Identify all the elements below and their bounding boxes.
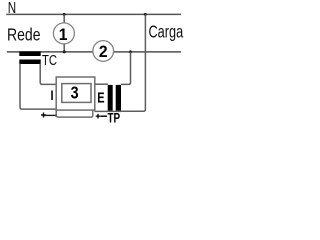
transformer TC bar 1 (core bar on phase line) — [19, 51, 40, 56]
wire right drop from N line down to TP bottom lead — [121, 14, 146, 111]
wire drop from phase line down to TP top lead — [121, 52, 131, 85]
wire phase line right segment (to Carga) — [113, 51, 181, 53]
wire under TP bars from box corner to right drop — [94, 110, 121, 112]
wire N line (neutral, top horizontal) — [6, 13, 181, 15]
svg-text:N: N — [8, 0, 16, 16]
wire TC secondary left lead down then right to meter box — [20, 64, 56, 109]
polarity mark + (left, current circuit) — [41, 113, 46, 118]
transformer TC bar 2 (secondary bar) — [19, 60, 40, 65]
svg-text:Rede: Rede — [7, 25, 41, 45]
svg-text:TC: TC — [42, 51, 57, 68]
wire dash from right plus to TP — [101, 115, 108, 117]
svg-text:Carga: Carga — [149, 23, 184, 42]
wire stub from N line down to meter 1 — [63, 14, 65, 23]
wire meter box left edge overshoot to plus lead — [55, 110, 57, 117]
wire phase line left segment (Rede feeder) — [7, 51, 93, 53]
wire TC secondary right lead down then right to meter box — [40, 64, 56, 85]
svg-text:E: E — [97, 89, 105, 106]
wire from meter box right edge to TP bar 1 top lead — [95, 83, 108, 85]
meter 3 outer box — [56, 77, 95, 110]
transformer TP bar 2 — [116, 85, 121, 111]
svg-text:TP: TP — [108, 110, 121, 126]
svg-text:1: 1 — [59, 26, 68, 44]
junction dot on N line at right drop — [144, 13, 147, 16]
junction dot on phase line right of meter 2 — [129, 50, 132, 53]
svg-text:I: I — [50, 88, 53, 103]
transformer TP bar 1 — [108, 85, 113, 111]
junction dot on phase line below meter 1 — [63, 50, 66, 53]
junction dot on N line above meter 1 — [63, 13, 66, 16]
svg-text:3: 3 — [71, 84, 79, 103]
meter 3 inner box — [62, 84, 91, 103]
meter 2 circle — [93, 41, 114, 62]
wire from left plus to box bottom left — [44, 114, 57, 116]
polarity mark + (right, voltage circuit) — [96, 114, 101, 119]
wire stub from meter 1 down to phase line — [63, 44, 65, 52]
svg-text:2: 2 — [99, 43, 108, 61]
wire under box from left lead to bottom right corner — [56, 110, 93, 117]
meter 1 circle — [53, 23, 74, 44]
